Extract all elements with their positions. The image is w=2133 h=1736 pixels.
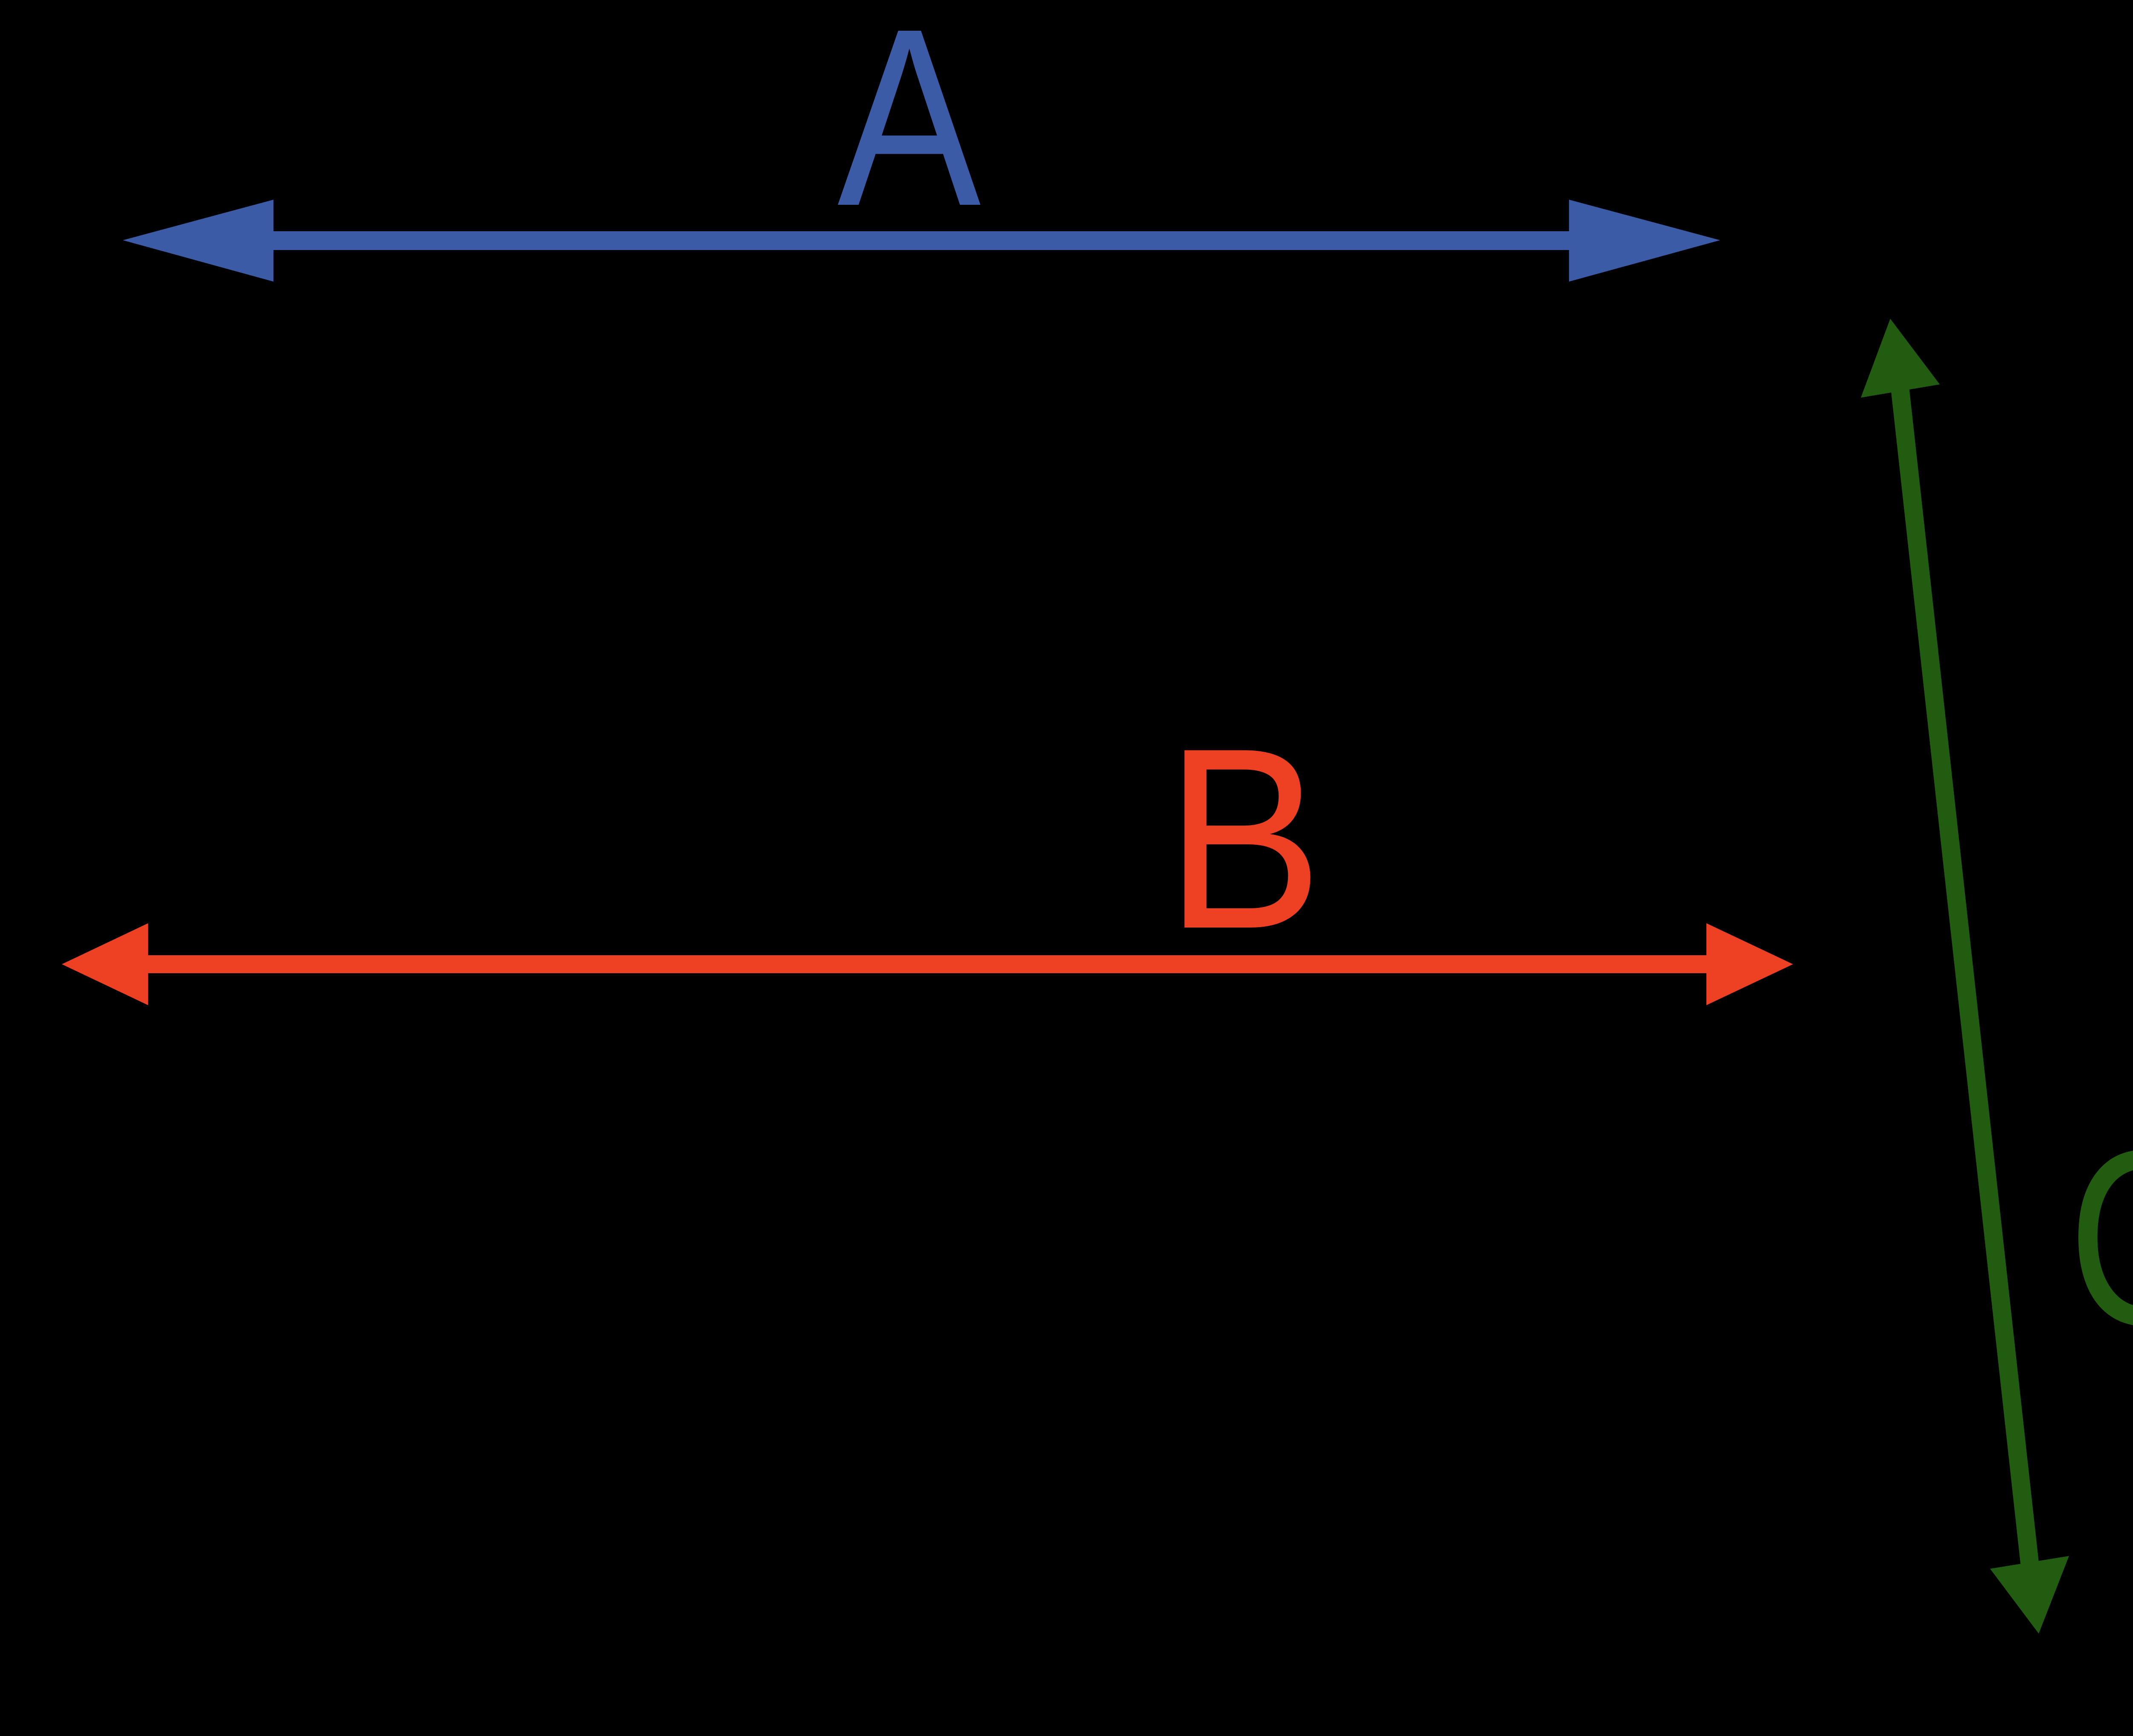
arrow C bottom head [1990,1556,2069,1634]
label B [1165,694,1323,982]
arrow C shaft [1899,383,2030,1571]
label C [2068,1098,2133,1377]
arrow A shaft [269,231,1574,250]
svg-text:B: B [1165,694,1323,982]
arrow A left head [123,200,273,282]
arrow B left head [62,923,148,1005]
arrow B shaft [145,955,1709,973]
arrow A : blue horizontal double-headed arrow [123,0,1720,282]
arrow B right head [1706,923,1793,1005]
arrow C : green tilted vertical double-headed arrow [1861,319,2133,1634]
svg-text:C: C [2068,1098,2133,1377]
arrow B : red horizontal double-headed arrow [62,694,1793,1005]
svg-text:A: A [837,0,982,259]
arrow C top head [1861,319,1940,398]
label A [837,0,982,259]
arrow A right head [1569,200,1720,282]
